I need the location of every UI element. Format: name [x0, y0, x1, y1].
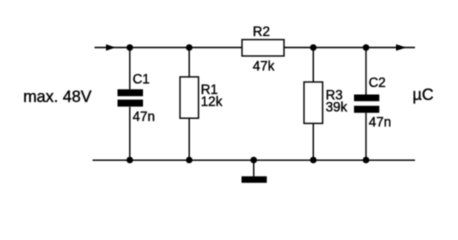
- svg-text:µC: µC: [413, 86, 434, 104]
- svg-text:12k: 12k: [201, 94, 223, 109]
- svg-text:39k: 39k: [326, 100, 348, 115]
- svg-text:C1: C1: [133, 71, 150, 86]
- svg-text:47n: 47n: [369, 114, 391, 129]
- svg-text:C2: C2: [369, 75, 386, 90]
- svg-text:R2: R2: [253, 24, 270, 39]
- svg-text:47n: 47n: [133, 109, 155, 124]
- svg-text:47k: 47k: [253, 59, 275, 74]
- svg-text:max. 48V: max. 48V: [23, 88, 92, 106]
